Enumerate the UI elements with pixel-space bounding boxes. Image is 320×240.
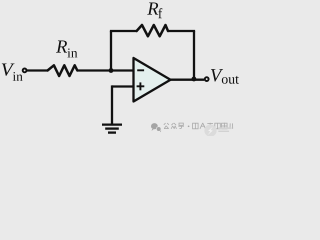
wire feedback top left bbox=[110, 30, 137, 32]
ground bbox=[102, 125, 122, 133]
wire plus input horizontal bbox=[112, 85, 134, 87]
node output junction bbox=[192, 77, 197, 82]
wire op-amp output bbox=[171, 79, 205, 81]
resistor Rin bbox=[48, 65, 78, 76]
label Vout bbox=[211, 69, 239, 84]
label Rin bbox=[56, 40, 77, 57]
op-amp minus sign bbox=[137, 69, 144, 71]
node A junction on inverting input bbox=[109, 68, 114, 73]
wire Rin to op-amp minus input bbox=[77, 69, 133, 71]
terminal Vin bbox=[23, 69, 27, 73]
wire feedback top right bbox=[168, 30, 195, 32]
wire feedback left vertical bbox=[110, 31, 112, 71]
op-amp plus sign bbox=[137, 82, 145, 90]
wire feedback right vertical bbox=[193, 31, 195, 80]
op-amp U1 bbox=[134, 58, 171, 102]
watermark logo circle bbox=[204, 125, 216, 137]
label Rf bbox=[147, 2, 162, 18]
watermark text gongzhonghao yingjian bbox=[164, 123, 233, 129]
wire input to Rin bbox=[27, 69, 48, 71]
label Vin bbox=[2, 63, 23, 80]
watermark wechat icon bbox=[151, 123, 161, 132]
wire plus input down to ground bbox=[111, 85, 113, 123]
watermark side text bbox=[218, 127, 231, 132]
terminal Vout bbox=[205, 77, 209, 81]
resistor Rf bbox=[137, 25, 168, 36]
